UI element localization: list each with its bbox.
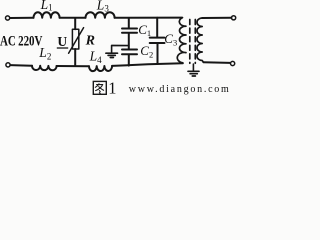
wire bottom mid [57,65,89,67]
capacitor C1 top lead [128,18,130,28]
svg-text:U: U [57,34,67,49]
terminal output bottom [231,61,235,65]
ground 2 below transformer core [192,64,194,71]
capacitor C3 plates [150,38,165,43]
caption 图1 : hand-drawn 图 glyph [93,81,106,94]
inductor L3 [86,12,115,18]
svg-text:1: 1 [108,79,116,97]
transformer T1 secondary winding [197,18,203,62]
ground 1 bars [106,53,118,57]
terminal output top [232,16,236,20]
wire secondary bottom to output [203,61,230,64]
capacitor C1 plates [122,29,137,33]
ground 2 bars [188,71,199,76]
varistor UR body [72,29,78,49]
ground 1 wire from C1/C2 midpoint [112,45,129,52]
svg-text:AC 220V: AC 220V [0,34,43,50]
svg-text:www.diangon.com: www.diangon.com [129,84,229,95]
inductor L1 [34,12,60,18]
图 inner strokes (冬) [95,84,99,88]
capacitor C1 bottom lead / node wire [128,34,130,49]
capacitor C3 bottom lead [157,44,159,64]
capacitor C2 bottom lead [128,55,130,66]
terminal top-left input [6,16,10,20]
transformer core dashed lines [190,20,196,64]
wire bottom-left [10,64,32,67]
wire top-left [10,17,34,19]
terminal bottom-left input [6,63,10,67]
transformer T1 primary winding [177,18,186,64]
图 outer box [93,81,106,94]
varistor UR slash [69,28,84,54]
wire secondary top to output [202,17,231,19]
wire top right [115,17,182,19]
varistor UR bottom lead [74,49,76,66]
svg-text:L1: L1 [40,0,53,13]
capacitor C3 top lead [156,18,158,37]
underline of U [57,47,68,49]
inductor L4 [89,66,112,71]
wire bottom right [112,63,183,66]
wire top mid [60,17,86,19]
varistor UR top lead [74,18,76,29]
capacitor C2 plates [122,50,137,55]
inductor L2 [32,66,57,71]
svg-text:R: R [85,34,95,49]
